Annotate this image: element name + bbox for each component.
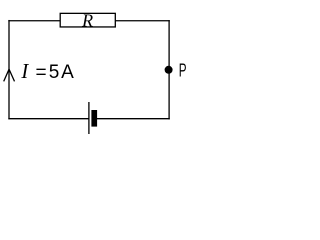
current arrow on left wire — [4, 69, 15, 81]
svg-text:I=5A: I=5A — [20, 61, 74, 84]
wire left side — [8, 20, 10, 119]
node P (junction dot) — [165, 66, 173, 74]
battery: short thick plate (negative) — [91, 110, 97, 127]
svg-text:P: P — [179, 60, 187, 81]
resistor R (box) — [60, 13, 115, 27]
battery: long thin plate (positive) — [88, 102, 90, 134]
wire top-right segment — [115, 20, 170, 22]
wire bottom-right segment — [97, 118, 170, 120]
wire top-left segment — [8, 20, 60, 22]
wire bottom-left segment — [8, 118, 89, 120]
wire right side — [168, 20, 170, 119]
svg-text:R: R — [81, 11, 93, 31]
